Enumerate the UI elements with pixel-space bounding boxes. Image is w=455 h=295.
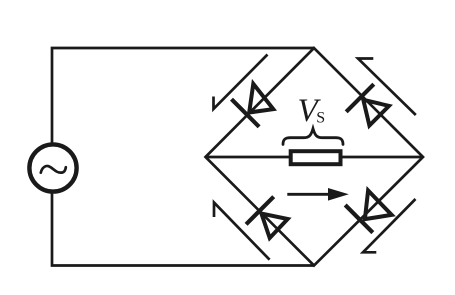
AC source tilde xyxy=(41,166,66,173)
corner mark upper-right xyxy=(358,59,416,116)
diode D1 cathode bar xyxy=(232,99,260,127)
corner mark lower-right xyxy=(363,199,416,252)
diode D4 (lower-right) triangle xyxy=(365,191,392,220)
diode D3 cathode bar xyxy=(246,197,274,225)
diode D2 cathode bar xyxy=(346,84,374,112)
AC source V1 circle xyxy=(29,144,76,191)
resistor R_L body xyxy=(291,151,341,164)
wire outer loop: top, left, bottom xyxy=(52,48,314,266)
diode D2 (upper-right) triangle xyxy=(363,100,389,126)
diode D4 cathode bar xyxy=(345,205,373,233)
current arrow head xyxy=(328,188,349,201)
wire middle horizontal from node L to node R xyxy=(206,156,424,159)
corner mark upper-left xyxy=(214,55,268,110)
svg-text:S: S xyxy=(316,110,325,127)
diode D1 (upper-left) triangle xyxy=(249,84,273,113)
corner mark lower-left xyxy=(214,203,270,260)
diode D3 (lower-left) triangle xyxy=(261,214,287,239)
wire bridge diamond xyxy=(206,48,424,266)
brace over resistor xyxy=(283,129,343,145)
current arrow shaft xyxy=(287,193,331,196)
